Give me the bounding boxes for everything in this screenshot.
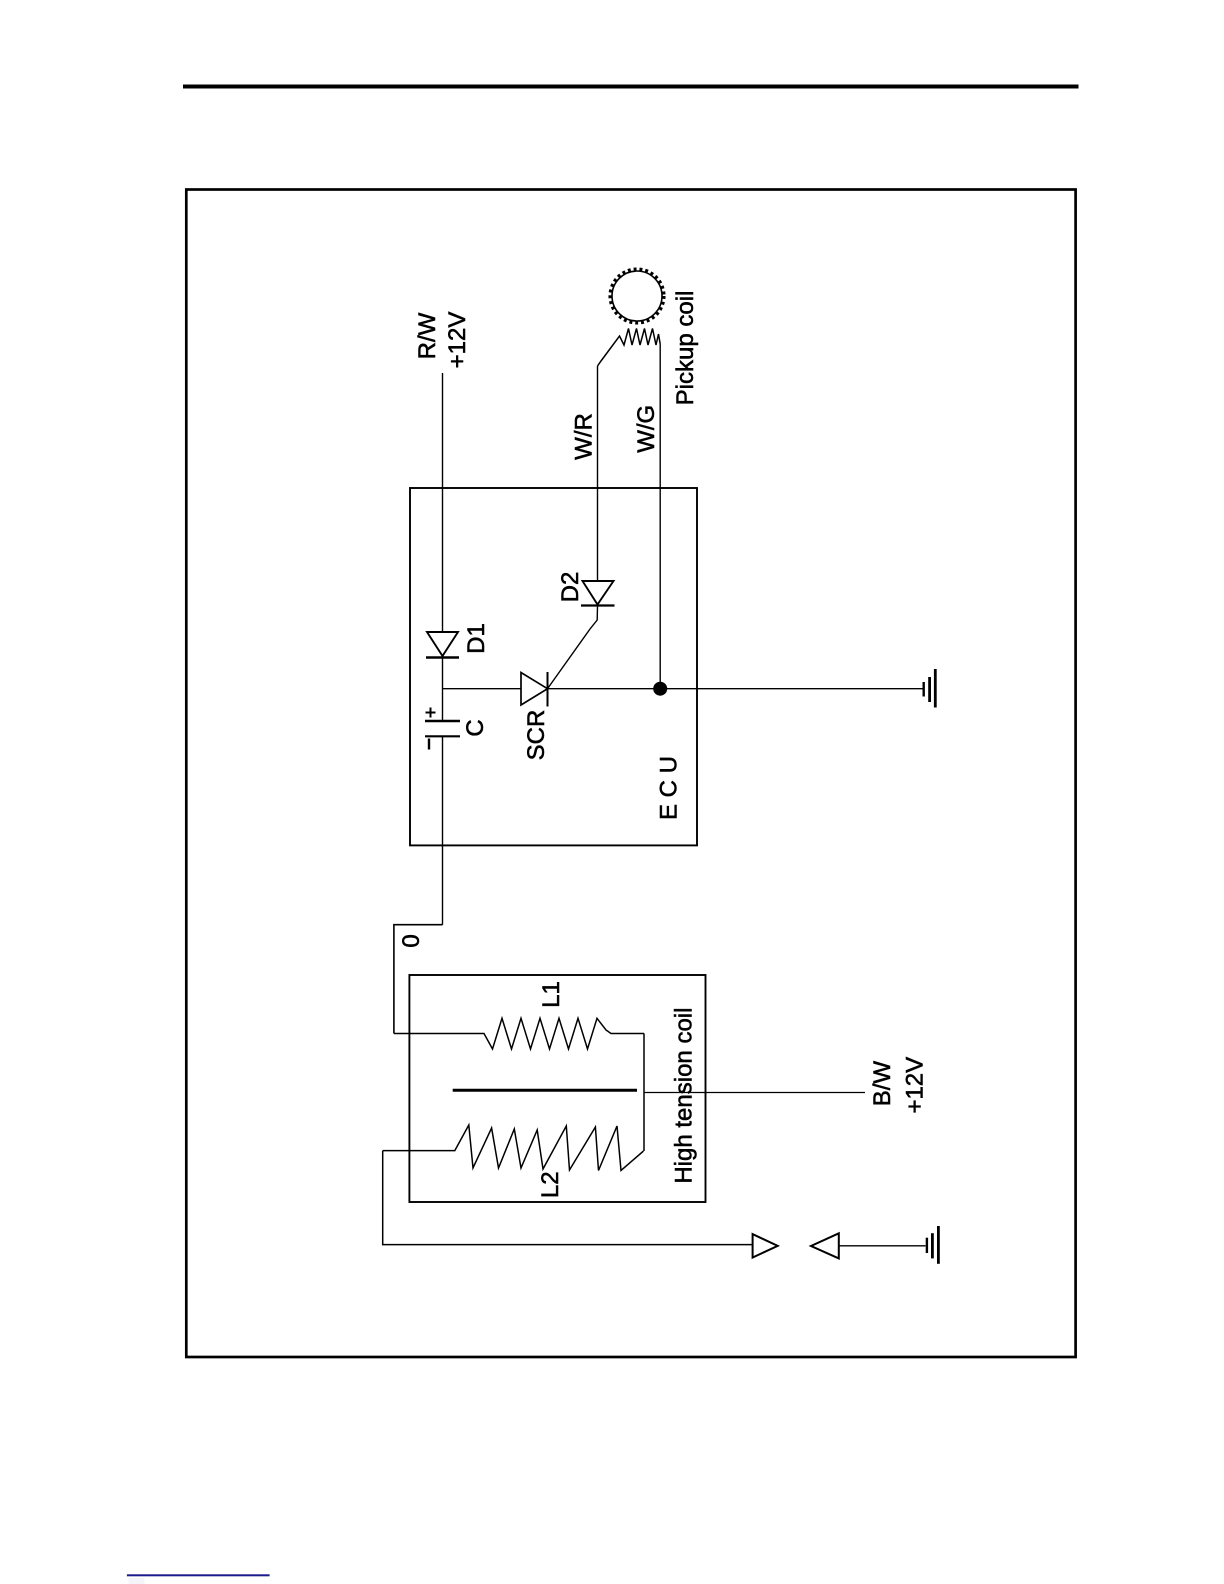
wire jog to coil	[394, 925, 443, 1034]
wire W/R	[597, 366, 599, 581]
ECU box	[410, 488, 697, 845]
pickup rotor	[610, 269, 663, 322]
ground (ECU output)	[924, 669, 936, 708]
footer link rule	[127, 1574, 270, 1576]
wire coil common vertical	[643, 1034, 645, 1152]
wire L2 to spark gap	[383, 1151, 753, 1245]
wire SCR gate from D2	[548, 606, 598, 689]
svg-text:+12V: +12V	[444, 312, 471, 369]
svg-text:W/R: W/R	[571, 413, 598, 460]
spark gap electrode left	[753, 1234, 778, 1257]
svg-text:D2: D2	[557, 572, 584, 603]
svg-text:D1: D1	[463, 623, 490, 654]
svg-text:High tension coil: High tension coil	[671, 1008, 698, 1184]
wire capacitor to coil section	[442, 736, 444, 924]
svg-text:B/W: B/W	[869, 1061, 896, 1107]
inductor L1	[394, 1018, 644, 1049]
ground (spark gap)	[927, 1226, 939, 1264]
junction node	[653, 682, 667, 696]
footer text remnant	[129, 1578, 145, 1584]
wire B/W	[644, 1092, 865, 1094]
svg-text:E C U: E C U	[656, 756, 683, 820]
wire main node right segment to ground	[548, 688, 923, 690]
svg-text:0: 0	[398, 934, 425, 947]
top rule	[183, 85, 1079, 89]
wire R/W supply lead	[442, 373, 444, 632]
transformer core	[453, 1089, 637, 1092]
label + (capacitor)	[426, 708, 436, 718]
svg-text:C: C	[462, 719, 489, 736]
schematic frame	[186, 190, 1075, 1358]
wire spark gap to ground	[839, 1245, 926, 1247]
wire W/G	[659, 344, 661, 689]
svg-text:SCR: SCR	[523, 710, 550, 761]
svg-text:Pickup coil: Pickup coil	[672, 291, 699, 406]
svg-text:L1: L1	[538, 981, 565, 1008]
svg-text:W/G: W/G	[633, 405, 660, 453]
high tension coil box	[409, 975, 705, 1202]
label minus (capacitor)	[428, 739, 430, 750]
pickup coil winding	[598, 329, 661, 367]
wire D1 cathode to capacitor	[442, 656, 444, 721]
SCR	[521, 672, 548, 707]
spark gap electrode right	[811, 1233, 839, 1258]
svg-text:L2: L2	[537, 1171, 564, 1198]
diode D1	[426, 632, 459, 658]
svg-text:+12V: +12V	[902, 1057, 929, 1114]
svg-text:R/W: R/W	[414, 312, 441, 359]
wire main node left segment	[443, 688, 522, 690]
inductor L2	[383, 1125, 644, 1171]
diode D2	[581, 581, 615, 606]
capacitor C	[425, 721, 460, 736]
